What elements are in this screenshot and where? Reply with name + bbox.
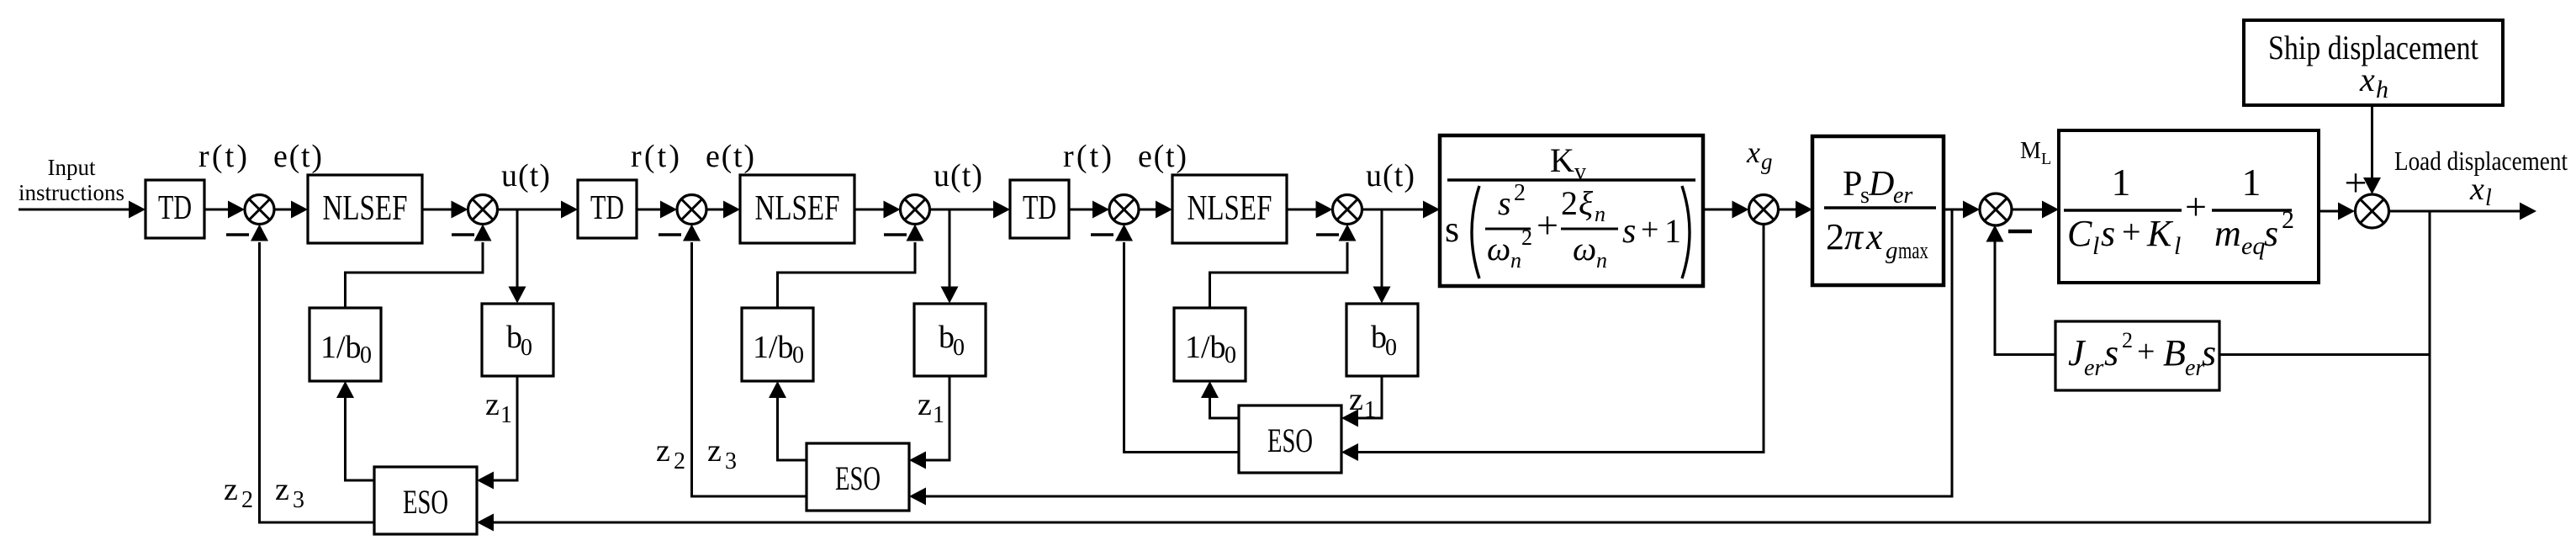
svg-text:x: x (2469, 172, 2484, 207)
block NLSEF3 (1172, 175, 1287, 243)
svg-text:g: g (1886, 237, 1898, 264)
wire feedback to ESO2 (909, 209, 1952, 506)
svg-text:u(t): u(t) (934, 158, 982, 193)
svg-text:v: v (1574, 159, 1586, 185)
summing junction S3a (1109, 195, 1139, 225)
wire u(t) drop to b0 stage1 (509, 209, 526, 304)
svg-text:h: h (2376, 76, 2388, 103)
svg-text:z: z (224, 472, 238, 507)
label xl (2469, 172, 2492, 211)
svg-text:2: 2 (1514, 180, 1526, 206)
svg-text:u(t): u(t) (501, 158, 550, 193)
svg-text:L: L (2041, 150, 2051, 168)
svg-text:2: 2 (674, 448, 685, 474)
wire u(t) drop to b0 stage2 (941, 209, 959, 304)
minus sign at S1b (452, 233, 474, 236)
wire S3a to NLSEF3 (1139, 201, 1172, 219)
svg-text:1: 1 (1664, 212, 1681, 250)
label e(t) stage3 (1138, 139, 1187, 174)
svg-text:0: 0 (1225, 342, 1236, 368)
wire S2a to NLSEF2 (706, 201, 740, 219)
wire NLSEF3 to S3b (1287, 201, 1333, 219)
minus sign at S2b (884, 233, 907, 236)
svg-text:NLSEF: NLSEF (755, 189, 840, 228)
svg-text:u(t): u(t) (1366, 158, 1415, 193)
svg-text:s: s (1498, 184, 1511, 222)
block b0 stage1 (482, 304, 553, 376)
wire b0 to ESO1 z1 (477, 376, 517, 490)
svg-text:ξ: ξ (1579, 184, 1594, 222)
svg-text:1: 1 (933, 402, 944, 428)
svg-text:2: 2 (1521, 225, 1532, 250)
svg-text:ESO: ESO (403, 483, 448, 521)
svg-text:z: z (485, 387, 500, 422)
svg-text:π: π (1844, 216, 1865, 257)
summing junction S2a (677, 195, 706, 225)
wire load block to output junction (2319, 203, 2355, 220)
svg-text:C: C (2067, 213, 2092, 254)
wire b0 to ESO2 z1 (909, 376, 949, 469)
svg-text:0: 0 (360, 342, 372, 368)
wire ESO1 z2 z3 to S1a (251, 225, 374, 523)
wire ship displacement to output junction (2363, 105, 2381, 194)
wire TD2 to S2a (637, 201, 677, 219)
svg-text:NLSEF: NLSEF (323, 189, 408, 228)
label z1 stage2 (918, 387, 944, 428)
svg-text:2: 2 (1561, 184, 1578, 222)
svg-text:eq: eq (2241, 232, 2265, 260)
svg-text:max: max (1898, 237, 1928, 264)
svg-text:TD: TD (590, 188, 624, 226)
wire ESO3 z2 z3 to S3a (1115, 225, 1239, 453)
wire 1/b0 to S2b stage2 (778, 225, 924, 309)
svg-text:x: x (1865, 216, 1883, 257)
summing junction S2b (901, 195, 930, 225)
svg-text:n: n (1510, 248, 1521, 273)
svg-text:z: z (656, 433, 670, 469)
svg-text:n: n (1595, 202, 1605, 226)
svg-text:1: 1 (1364, 397, 1376, 423)
wire NLSEF2 to S2b (854, 201, 901, 219)
wire S1a to NLSEF1 (274, 201, 308, 219)
svg-text:instructions: instructions (19, 180, 124, 205)
wire 1/b0 to S3b stage3 (1210, 225, 1357, 309)
label Input instructions (19, 155, 124, 205)
block b0 stage2 (914, 304, 986, 376)
svg-text:2: 2 (2282, 206, 2294, 234)
minus sign at ML junction (2008, 230, 2032, 234)
svg-text:g: g (1761, 149, 1773, 174)
label xg (1746, 135, 1773, 174)
svg-text:s: s (2202, 332, 2216, 374)
label u(t) stage1 (501, 158, 550, 193)
svg-text:er: er (2084, 355, 2103, 381)
label r(t) stage3 (1063, 139, 1112, 174)
svg-text:+: + (2344, 161, 2367, 205)
svg-text:z: z (918, 387, 932, 422)
label e(t) stage1 (273, 139, 322, 174)
block ESO1 (374, 467, 477, 534)
svg-text:+: + (2122, 213, 2141, 251)
svg-text:l: l (2174, 232, 2181, 260)
svg-text:s: s (2104, 332, 2118, 374)
label z1 stage3 (1349, 382, 1376, 423)
wire Kv to xg junction (1703, 201, 1749, 219)
svg-text:e(t): e(t) (706, 139, 754, 174)
block b0 stage3 (1346, 304, 1418, 376)
wire 1/b0 to S1b stage1 (346, 225, 492, 309)
block servo valve Kv transfer function (1440, 135, 1703, 286)
label z3 stage1 (275, 472, 304, 513)
minus sign at S2a (659, 233, 681, 236)
svg-text:s: s (2101, 213, 2115, 254)
summing junction S1a (245, 195, 274, 225)
svg-text:1/b: 1/b (753, 330, 794, 365)
wire S3b to servo valve block (1362, 201, 1441, 219)
block 1/b0 stage2 (742, 308, 813, 381)
label u(t) stage2 (934, 158, 982, 193)
wire output xl (2389, 203, 2537, 220)
svg-text:1/b: 1/b (320, 330, 362, 365)
label z2 stage2 (656, 433, 685, 474)
svg-text:+: + (2185, 185, 2207, 228)
wire TD3 to S3a (1069, 201, 1109, 219)
wire Jer block to ML junction (1986, 225, 2056, 355)
wire input instructions (19, 201, 145, 219)
svg-text:m: m (2214, 213, 2241, 254)
wire S2b to TD3 (930, 201, 1011, 219)
block TD2 (578, 180, 637, 238)
svg-text:TD: TD (158, 188, 192, 226)
wire ESO1 to 1/b0 (336, 381, 374, 480)
svg-text:3: 3 (293, 487, 304, 513)
svg-text:1: 1 (500, 402, 512, 428)
summing junction output (2356, 194, 2389, 228)
svg-text:x: x (2359, 61, 2375, 98)
wire S1b to TD2 (498, 201, 579, 219)
minus sign at S3b (1316, 233, 1339, 236)
svg-text:ω: ω (1573, 230, 1596, 268)
svg-text:l: l (2485, 185, 2492, 211)
wire TD1 to S1a (204, 201, 245, 219)
block TD1 (145, 180, 204, 238)
svg-text:ESO: ESO (835, 459, 881, 497)
svg-text:0: 0 (792, 342, 804, 368)
svg-text:+: + (2137, 334, 2155, 369)
label z2 stage1 (224, 472, 253, 513)
block Jer s2 plus Ber s (2055, 321, 2219, 390)
svg-text:n: n (1596, 248, 1607, 273)
block ship displacement xh (2244, 20, 2503, 105)
minus sign at S3a (1091, 233, 1113, 236)
block ESO3 (1239, 405, 1341, 473)
block 1/b0 stage1 (309, 308, 381, 381)
svg-text:s: s (1445, 209, 1459, 250)
wire ESO2 z2 z3 to S2a (683, 225, 807, 497)
label z3 stage2 (707, 433, 737, 474)
svg-text:z: z (275, 472, 289, 507)
svg-text:3: 3 (725, 448, 737, 474)
plus sign at output junction (2344, 161, 2367, 205)
svg-text:z: z (1349, 382, 1363, 417)
summing junction S3b (1333, 195, 1362, 225)
wire ML junction to load block (2012, 201, 2059, 219)
svg-text:TD: TD (1023, 188, 1056, 226)
svg-text:2: 2 (1826, 216, 1844, 257)
svg-text:+: + (1537, 204, 1558, 246)
block pump PsDer over 2pi xgmax (1812, 136, 1944, 285)
minus sign at S1a (226, 233, 249, 236)
svg-text:+: + (1641, 212, 1658, 247)
wire b0 to ESO3 z1 (1341, 376, 1382, 427)
block load transfer function (2059, 130, 2319, 283)
svg-text:Input: Input (48, 155, 96, 180)
label ML (2020, 138, 2051, 168)
wire feedback xg to ESO3 (1341, 225, 1764, 462)
svg-text:2: 2 (2122, 328, 2133, 352)
svg-text:1: 1 (2112, 161, 2131, 204)
label z1 stage1 (485, 387, 512, 428)
svg-text:K: K (1550, 141, 1574, 179)
block NLSEF1 (308, 175, 422, 243)
block TD3 (1010, 180, 1069, 238)
svg-text:l: l (2092, 232, 2099, 260)
svg-text:0: 0 (1385, 335, 1397, 361)
label r(t) stage2 (631, 139, 680, 174)
svg-text:ω: ω (1487, 230, 1510, 268)
label e(t) stage2 (706, 139, 754, 174)
wire xg to pump block (1779, 201, 1813, 219)
wire xl tap to Jer block (2219, 211, 2430, 356)
label r(t) stage1 (198, 139, 247, 174)
svg-text:1/b: 1/b (1185, 330, 1226, 365)
summing junction xg (1749, 195, 1779, 225)
svg-text:ESO: ESO (1267, 421, 1313, 459)
svg-text:2: 2 (241, 487, 253, 513)
label Load displacement (2394, 146, 2568, 176)
svg-text:NLSEF: NLSEF (1187, 189, 1272, 228)
wire pump block to ML junction (1944, 201, 1980, 219)
wire u(t) drop to b0 stage3 (1373, 209, 1391, 304)
svg-text:D: D (1868, 165, 1894, 204)
wire ESO2 to 1/b0 (769, 381, 807, 460)
svg-text:x: x (1746, 135, 1760, 169)
summing junction ML (1980, 193, 2012, 225)
svg-text:0: 0 (521, 335, 532, 361)
svg-text:s: s (1622, 212, 1636, 251)
wire feedback xl to ESO1 (477, 211, 2430, 532)
block NLSEF2 (740, 175, 854, 243)
svg-text:K: K (2146, 213, 2174, 254)
svg-text:B: B (2163, 332, 2186, 374)
block ESO2 (807, 443, 909, 511)
svg-text:s: s (2264, 213, 2278, 254)
wire NLSEF1 to S1b (422, 201, 468, 219)
svg-text:P: P (1843, 165, 1862, 204)
svg-text:e(t): e(t) (1138, 139, 1187, 174)
block 1/b0 stage3 (1174, 308, 1246, 381)
svg-text:e(t): e(t) (273, 139, 322, 174)
svg-text:z: z (707, 433, 722, 469)
svg-text:1: 1 (2242, 161, 2261, 204)
label u(t) stage3 (1366, 158, 1415, 193)
svg-text:M: M (2020, 138, 2041, 164)
svg-text:er: er (1893, 183, 1912, 209)
summing junction S1b (468, 195, 498, 225)
svg-text:0: 0 (953, 335, 965, 361)
wire ESO3 to 1/b0 (1201, 381, 1239, 418)
